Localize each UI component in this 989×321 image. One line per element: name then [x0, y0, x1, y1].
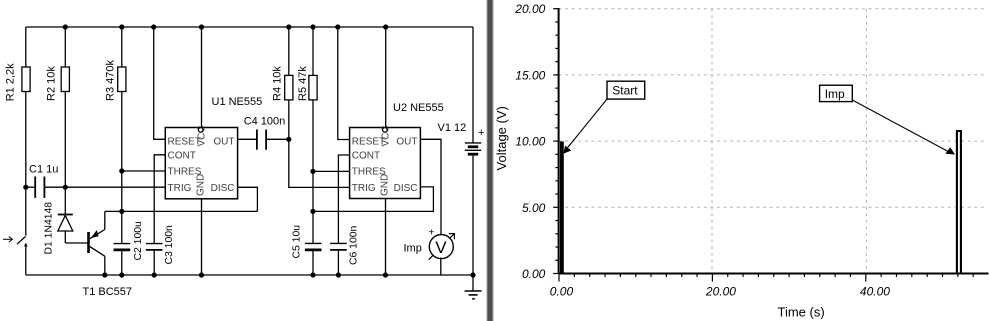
svg-text:5.00: 5.00 — [522, 201, 546, 215]
svg-text:R4 10k: R4 10k — [272, 66, 284, 101]
junction U1 GND rail — [199, 272, 204, 277]
svg-text:TRIG: TRIG — [352, 183, 376, 194]
junction U2 reset rail — [335, 24, 340, 29]
svg-text:GND: GND — [380, 174, 391, 196]
resistor R3 — [105, 60, 126, 101]
svg-text:V: V — [435, 238, 447, 257]
wire voltmeter to rail — [440, 258, 442, 276]
wire R4 top — [288, 27, 290, 75]
wire bottom ground rail — [26, 274, 473, 276]
svg-text:OUT: OUT — [396, 137, 417, 148]
junction R4 top — [286, 24, 291, 29]
chart x axis labels — [550, 284, 890, 298]
wire U1 OUT to C4 — [238, 138, 257, 140]
svg-text:CONT: CONT — [168, 150, 196, 161]
wire R2 top — [64, 27, 66, 67]
wire R5 bottom to U2 THRES node — [312, 100, 314, 171]
junction C2 rail — [119, 272, 124, 277]
svg-text:TRIG: TRIG — [168, 183, 192, 194]
svg-text:DISC: DISC — [211, 183, 235, 194]
svg-text:C3 100n: C3 100n — [164, 225, 175, 265]
svg-text:20.00: 20.00 — [705, 284, 736, 298]
svg-text:C2 100u: C2 100u — [133, 221, 144, 261]
wire reset drop U2 — [338, 27, 350, 140]
wire U2 DISC return — [313, 187, 433, 212]
junction left rail C1 — [23, 185, 28, 190]
curve imp pulse — [957, 131, 961, 274]
wire U2 VCC — [385, 27, 387, 128]
svg-text:R5 47k: R5 47k — [297, 66, 309, 101]
pin circle U1 VCC — [198, 128, 203, 133]
wire D1 to T1 base — [65, 242, 87, 244]
svg-text:Start: Start — [612, 84, 638, 98]
junction U2 THRES node — [310, 169, 315, 174]
annotation Start — [564, 81, 645, 153]
wire DISC node down to C5 — [312, 211, 314, 243]
svg-text:R2 10k: R2 10k — [46, 66, 58, 101]
capacitor C1 — [26, 164, 66, 198]
chart gridlines vertical — [712, 9, 866, 274]
svg-text:OUT: OUT — [213, 137, 234, 148]
diode D1 — [44, 187, 73, 254]
pin circle U2 VCC — [383, 128, 388, 133]
wire THRES node down to emitter node — [121, 171, 123, 211]
curve start pulse — [560, 141, 564, 273]
wire U1 CONT to C3 — [154, 155, 165, 244]
junction C3 rail — [152, 272, 157, 277]
capacitor C4 — [244, 116, 289, 150]
junction U2 VCC rail — [383, 24, 388, 29]
chart y axis — [559, 8, 989, 274]
annotation Imp — [820, 85, 955, 154]
svg-text:U2 NE555: U2 NE555 — [393, 102, 444, 114]
junction R5 top — [310, 24, 315, 29]
wire R5 top — [312, 27, 314, 75]
svg-text:DISC: DISC — [394, 183, 418, 194]
wire C4 node down to U2 TRIG — [289, 139, 350, 187]
svg-text:+: + — [429, 228, 435, 239]
junction U2 GND rail — [383, 272, 388, 277]
chart y ticks — [553, 9, 558, 274]
junction C6 rail — [336, 272, 341, 277]
svg-text:Imp: Imp — [825, 87, 845, 101]
wire U1 DISC — [238, 187, 258, 211]
wire emitter horizontal to DISC net — [105, 210, 258, 212]
svg-text:R3 470k: R3 470k — [105, 60, 117, 101]
wire trigger net to U1 TRIG — [65, 186, 165, 188]
svg-text:D1 1N4148: D1 1N4148 — [44, 202, 55, 255]
wire R3 bottom to THRES node — [121, 92, 123, 172]
wire R2 bottom to trigger net — [64, 92, 66, 188]
junction U2 DISC node — [310, 209, 315, 214]
battery V1 — [438, 27, 485, 275]
switch S1 — [17, 237, 28, 276]
panel separator bar — [487, 0, 492, 321]
wire THRES to U1 — [122, 170, 166, 172]
svg-text:C5 10u: C5 10u — [292, 225, 303, 259]
svg-text:R1 2,2k: R1 2,2k — [5, 63, 17, 101]
junction C4/R4 node — [286, 137, 291, 142]
chart gridlines horizontal — [559, 9, 985, 208]
op-amp U1 NE555 box — [165, 96, 262, 199]
svg-text:15.00: 15.00 — [515, 68, 545, 82]
svg-text:0.00: 0.00 — [550, 284, 574, 298]
junction U1 reset rail — [151, 24, 156, 29]
wire U1 VCC — [201, 27, 203, 128]
svg-text:C6 100n: C6 100n — [349, 225, 360, 265]
wire top supply rail — [26, 26, 473, 28]
capacitor C6 — [330, 225, 359, 275]
junction T1 collector / rail — [102, 272, 107, 277]
wire THRES to U2 — [313, 170, 350, 172]
svg-text:0.00: 0.00 — [522, 267, 546, 281]
svg-text:V1 12: V1 12 — [438, 122, 467, 134]
wire THRES node down to DISC node — [312, 171, 314, 211]
junction C5 rail — [310, 272, 315, 277]
wire left rail upper — [25, 27, 27, 67]
op-amp U2 NE555 box — [350, 102, 444, 199]
switch actuator arrow — [3, 237, 12, 243]
wire R4 bottom to C4 node — [288, 100, 290, 139]
junction THRES node — [119, 168, 124, 173]
chart y axis labels — [514, 2, 545, 281]
wire U2 GND — [385, 199, 387, 276]
capacitor C2 — [114, 221, 145, 275]
resistor R5 — [297, 66, 317, 101]
wire U2 CONT to C6 — [338, 155, 349, 243]
svg-text:Voltage (V): Voltage (V) — [494, 106, 509, 170]
wire U1 GND — [201, 199, 203, 275]
ground — [465, 275, 482, 299]
svg-text:GND: GND — [196, 174, 207, 196]
resistor R4 — [272, 66, 293, 101]
junction emitter node — [119, 209, 124, 214]
svg-text:C1 1u: C1 1u — [29, 164, 58, 176]
junction battery rail — [470, 272, 475, 277]
svg-text:T1 BC557: T1 BC557 — [83, 286, 133, 298]
svg-text:40.00: 40.00 — [860, 284, 890, 298]
svg-text:20.00: 20.00 — [514, 2, 545, 16]
svg-text:U1 NE555: U1 NE555 — [212, 96, 263, 108]
junction U1 VCC rail — [199, 24, 204, 29]
resistor R2 — [46, 66, 70, 101]
resistor R1 — [5, 63, 31, 101]
junction R3 top — [119, 24, 124, 29]
voltmeter Imp — [404, 228, 455, 260]
wire U2 OUT to voltmeter — [420, 139, 441, 235]
svg-text:Time (s): Time (s) — [778, 305, 825, 320]
wire R3 top — [121, 27, 123, 67]
transistor T1 — [83, 211, 133, 298]
wire reset drop U1 — [154, 27, 166, 139]
svg-text:10.00: 10.00 — [515, 135, 545, 149]
svg-text:C4 100n: C4 100n — [244, 116, 286, 128]
wire emitter node down to C2 — [121, 211, 123, 243]
svg-text:+: + — [478, 127, 484, 139]
capacitor C3 — [146, 225, 175, 275]
chart x ticks — [559, 274, 973, 282]
wire left rail middle — [25, 92, 27, 236]
junction C1/R2/D1 node — [63, 185, 68, 190]
svg-text:Imp: Imp — [404, 243, 422, 255]
svg-text:CONT: CONT — [352, 150, 380, 161]
junction R2 top — [63, 24, 68, 29]
capacitor C5 — [292, 225, 322, 275]
